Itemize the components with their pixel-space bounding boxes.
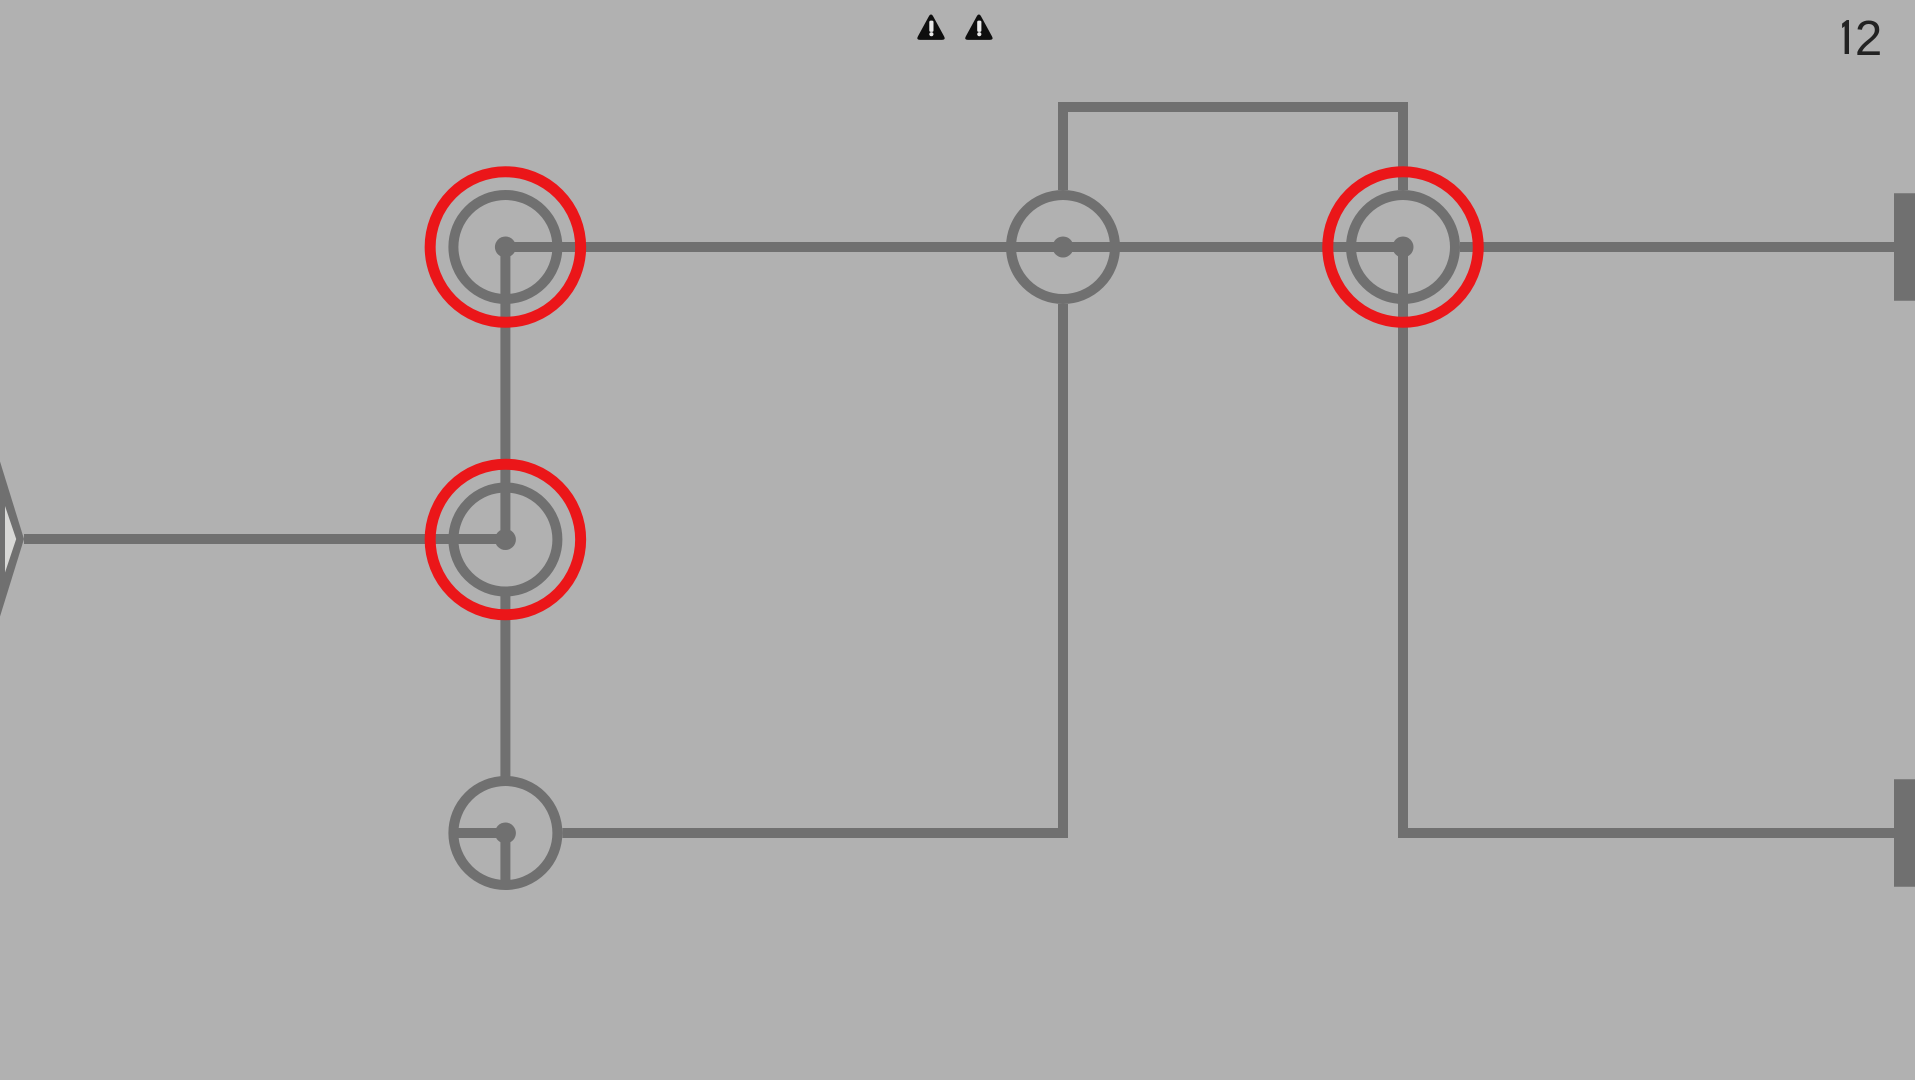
svg-text:2: 2 [1855, 12, 1882, 66]
